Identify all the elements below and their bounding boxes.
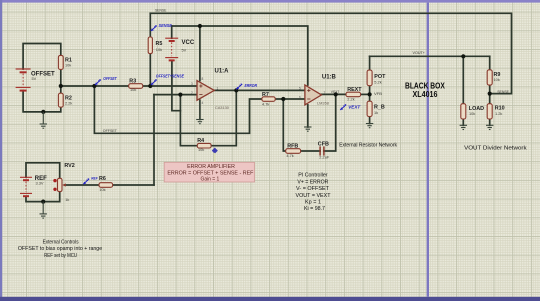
ground below R_B <box>366 124 373 128</box>
wire LOAD bottom to ground <box>462 119 464 125</box>
svg-text:2.2uF: 2.2uF <box>319 155 330 160</box>
wire REF net vertical <box>153 95 155 185</box>
svg-text:U1:B: U1:B <box>322 75 337 81</box>
sheet border top band <box>0 0 540 3</box>
wire node OFFSET row to R3 <box>61 85 129 87</box>
svg-text:External Controls: External Controls <box>43 240 79 246</box>
svg-text:R7: R7 <box>262 92 269 98</box>
op-amp U1:A <box>191 77 219 105</box>
svg-text:VOUT Divider Network: VOUT Divider Network <box>464 145 527 151</box>
svg-text:REF: REF <box>91 176 98 180</box>
svg-text:4.7k: 4.7k <box>262 101 269 106</box>
node ERROR junction <box>234 88 238 92</box>
svg-text:RFB: RFB <box>287 143 298 149</box>
svg-text:5.2k: 5.2k <box>374 80 381 85</box>
svg-text:OFFSET+SENSE: OFFSET+SENSE <box>156 74 185 79</box>
wire OFFSET vertical drop <box>94 86 262 133</box>
svg-text:10k: 10k <box>198 147 204 152</box>
svg-text:ERROR: ERROR <box>245 83 258 88</box>
potentiometer RV2 dots and wiper <box>53 179 66 191</box>
svg-text:2.2k: 2.2k <box>347 97 354 102</box>
svg-text:U1:A: U1:A <box>215 69 230 75</box>
svg-text:VOUT+: VOUT+ <box>413 51 425 55</box>
wire U1:A V- to ground <box>199 100 201 119</box>
origin marker blue diamond <box>212 148 218 154</box>
node U1:A minus junction <box>178 93 182 97</box>
wire R9 top lead <box>489 56 491 70</box>
resistor R10 <box>487 104 492 119</box>
svg-text:1k: 1k <box>374 110 378 115</box>
arrow for net label OFFSET <box>95 79 101 85</box>
svg-text:3: 3 <box>191 82 193 86</box>
ground below LOAD <box>460 125 467 129</box>
svg-text:10k: 10k <box>469 111 475 116</box>
wire LOAD top lead <box>462 56 464 103</box>
arrow for net label SENSE <box>151 25 157 31</box>
svg-text:1: 1 <box>217 86 219 90</box>
wire R_B bottom to ground <box>369 117 371 124</box>
wire battery OFFSET bottom lead <box>23 91 61 112</box>
op-amp U1:B <box>299 85 326 105</box>
svg-text:8: 8 <box>202 77 204 81</box>
wire R6 right lead <box>113 184 154 186</box>
battery REF <box>20 177 32 196</box>
text BLACK BOX XL4016 <box>405 81 445 99</box>
wire RFB left lead <box>283 99 285 151</box>
resistor R_B <box>367 101 372 116</box>
node OFFSET loop ground junction <box>41 110 45 114</box>
ground below REF loop <box>40 202 47 219</box>
svg-text:VFB: VFB <box>374 92 383 96</box>
node OFFSET tap <box>92 84 96 88</box>
svg-text:SENSE: SENSE <box>155 9 167 13</box>
capacitor CFB <box>320 146 324 155</box>
resistor R7 <box>262 97 275 102</box>
arrow for net label REF <box>83 178 89 184</box>
text PI Controller block <box>296 173 332 213</box>
wire U1:B V- to ground <box>307 105 309 127</box>
svg-text:ERROR AMPLIFIER: ERROR AMPLIFIER <box>187 164 235 170</box>
wire U1:A V+ lead <box>199 26 201 81</box>
svg-text:3.3V: 3.3V <box>36 180 44 185</box>
svg-text:10k: 10k <box>130 87 136 92</box>
wire REF loop bottom <box>26 192 60 202</box>
svg-text:SENSE: SENSE <box>497 90 509 94</box>
text External Controls block <box>18 240 102 259</box>
svg-text:4: 4 <box>202 101 204 105</box>
svg-text:Ki = 98.7: Ki = 98.7 <box>304 206 325 212</box>
node R7-RFB junction <box>281 97 285 101</box>
resistor R6 <box>99 183 113 188</box>
wire R10 bottom to ground <box>489 119 491 125</box>
wire REF loop top <box>26 163 60 179</box>
svg-text:CFB: CFB <box>318 142 329 148</box>
svg-text:5: 5 <box>299 86 301 90</box>
resistor LOAD <box>461 104 466 119</box>
svg-text:10k: 10k <box>65 63 71 68</box>
wire ERROR row <box>214 89 305 91</box>
svg-text:1k: 1k <box>65 197 69 202</box>
wire VCC battery bottom lead <box>172 60 181 110</box>
svg-text:OFFSET: OFFSET <box>103 129 118 133</box>
wire RV2 wiper to R6 <box>65 184 100 186</box>
svg-text:PI Controller: PI Controller <box>298 173 327 179</box>
svg-text:5V: 5V <box>32 76 37 81</box>
ground below U1:B <box>304 127 311 131</box>
resistor R1 <box>58 55 63 69</box>
small net name texts <box>103 9 510 134</box>
svg-text:REXT: REXT <box>347 87 362 93</box>
arrow for net label VEXT <box>340 104 346 110</box>
battery OFFSET <box>16 69 31 91</box>
svg-text:6: 6 <box>299 95 301 99</box>
wire VEXT feedback vertical <box>324 94 336 151</box>
svg-text:VEXT: VEXT <box>348 105 361 110</box>
resistor R2 <box>58 93 63 107</box>
wire R4 right to ERROR node <box>211 90 236 145</box>
node VCC row junction <box>198 24 202 28</box>
resistor RFB <box>286 149 301 154</box>
svg-text:R3: R3 <box>129 79 136 85</box>
wire R7 right to U1:B minus input <box>275 98 305 100</box>
svg-text:V- = OFFSET: V- = OFFSET <box>296 186 330 192</box>
node VFB junction <box>368 92 372 96</box>
wire VCC row <box>172 26 308 85</box>
faint yellow marker line <box>214 153 216 163</box>
svg-text:RV2: RV2 <box>64 163 74 169</box>
svg-text:External Resistor Network: External Resistor Network <box>339 142 397 148</box>
svg-text:10k: 10k <box>156 47 162 52</box>
svg-text:VOUT = VEXT: VOUT = VEXT <box>296 193 332 199</box>
wire feedback to R4 <box>180 95 197 146</box>
wire U1:A minus input row <box>154 94 197 96</box>
ground below R10 <box>486 125 493 129</box>
svg-text:VCC: VCC <box>182 40 195 46</box>
sheet page boundary vertical line <box>427 3 429 297</box>
svg-text:1.2k: 1.2k <box>495 111 502 116</box>
svg-text:CA3130: CA3130 <box>215 105 230 110</box>
resistor POT <box>367 70 372 86</box>
wire REXT right to VFB <box>361 93 370 95</box>
wire POT top lead <box>369 56 371 70</box>
pink script box ERROR AMPLIFIER <box>164 162 254 182</box>
resistor R9 <box>487 70 492 85</box>
node R1-R2 junction <box>59 84 63 88</box>
node VOUT+ junction <box>461 54 465 58</box>
sheet border left band <box>0 0 2 301</box>
wire SENSE top row <box>150 13 511 93</box>
svg-text:SENSE: SENSE <box>159 23 173 28</box>
wire VCC battery top lead <box>171 26 173 38</box>
svg-text:V+ = ERROR: V+ = ERROR <box>297 179 328 185</box>
resistor R3 <box>129 84 143 89</box>
svg-text:VEXT: VEXT <box>331 90 340 94</box>
resistor R4 <box>197 143 211 148</box>
node OFFSET+SENSE <box>148 84 152 88</box>
node SENSE divider junction <box>488 92 492 96</box>
ground below OFFSET loop <box>40 112 47 128</box>
svg-text:LM358: LM358 <box>317 101 329 106</box>
arrow for net label ERROR <box>236 84 242 90</box>
wire R5 bottom lead <box>149 54 151 86</box>
svg-text:OFFSET: OFFSET <box>103 76 117 81</box>
svg-text:10k: 10k <box>494 77 500 82</box>
svg-text:REF set by MCU: REF set by MCU <box>44 253 77 259</box>
wire OFFSET loop top <box>23 44 61 70</box>
svg-text:OFFSET to bias opamp into + ra: OFFSET to bias opamp into + range <box>18 246 102 252</box>
wire R5 top lead <box>149 13 151 37</box>
wire R3 right to op-amp plus input <box>143 85 197 87</box>
svg-text:5V: 5V <box>182 47 187 52</box>
arrow for net label OFFSET+SENSE <box>151 79 157 85</box>
wire VOUT+ row <box>370 55 490 57</box>
wire RFB to CFB <box>301 150 321 152</box>
svg-text:2: 2 <box>191 91 193 95</box>
resistor REXT <box>346 92 361 97</box>
battery VCC <box>165 38 178 60</box>
wire U1:B output row <box>322 93 347 95</box>
svg-text:4.7k: 4.7k <box>286 153 293 158</box>
node VEXT junction <box>334 92 338 96</box>
svg-text:R4: R4 <box>197 138 204 144</box>
wire R9 bottom to SENSE node <box>489 85 491 104</box>
svg-text:7: 7 <box>324 91 326 95</box>
svg-text:R6: R6 <box>99 176 106 182</box>
sheet border bottom band <box>0 297 540 301</box>
svg-text:Gain = 1: Gain = 1 <box>201 176 220 182</box>
wire R1 bottom to R2 top <box>60 69 62 93</box>
resistor R5 <box>148 37 152 54</box>
ground below U1:A <box>196 100 203 124</box>
svg-text:Kp = 1: Kp = 1 <box>305 199 321 205</box>
svg-text:XL4016: XL4016 <box>413 90 438 99</box>
node REF loop ground junction <box>41 200 45 204</box>
svg-text:R5: R5 <box>156 41 163 47</box>
svg-text:10k: 10k <box>99 187 105 192</box>
wire POT bottom to VFB node <box>369 86 371 102</box>
potentiometer RV2 body <box>58 178 63 191</box>
svg-text:2.2k: 2.2k <box>65 100 72 105</box>
